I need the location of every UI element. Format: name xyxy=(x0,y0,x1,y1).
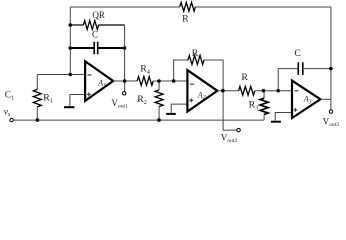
terminal Vout1 xyxy=(123,92,126,95)
wire left rail (top line down to A1 inverting input) xyxy=(69,7,71,75)
node A2 output xyxy=(221,89,225,93)
wire QR row left lead xyxy=(70,24,83,26)
wire A2 feedback branch (up and over) xyxy=(174,60,188,81)
wire A1 non-inverting input to ground xyxy=(70,95,85,107)
resistor R (between A2 and A3) xyxy=(239,86,255,95)
svg-text:C: C xyxy=(92,30,98,40)
node A1 output xyxy=(123,79,127,83)
wire A3 non-inverting input to ground xyxy=(275,113,292,121)
node R/R3 junction xyxy=(262,89,266,93)
svg-text:R: R xyxy=(182,14,189,25)
wire top feedback line (left segment, from left rail to resistor R) xyxy=(70,6,180,8)
capacitor C (A3) plates xyxy=(298,62,303,75)
terminal Vout3 xyxy=(329,110,332,113)
wire A1 output row xyxy=(113,80,137,82)
wire A2 non-inverting input to ground xyxy=(171,104,187,113)
resistor R3 (vertical) with leads xyxy=(263,91,265,98)
resistor R4 (between A1 and A2) xyxy=(137,77,153,86)
resistor R4 (A2 feedback) xyxy=(188,56,204,65)
wire A3 output to right rail xyxy=(320,98,331,100)
resistor R (top feedback) xyxy=(180,2,196,11)
node C right (A1) xyxy=(123,46,127,50)
node R1 bottom rail xyxy=(36,118,40,122)
minus sign A3 xyxy=(295,90,299,92)
wire top feedback line (right segment, R to right rail corner) xyxy=(195,6,331,8)
node R2 bottom rail xyxy=(157,118,161,122)
svg-text:R: R xyxy=(241,72,248,83)
minus sign A2 xyxy=(190,83,194,85)
op-amp A1 xyxy=(85,61,113,101)
node C right on rail (A3) xyxy=(329,67,333,71)
plus sign A2 xyxy=(189,98,193,102)
svg-text:QR: QR xyxy=(92,10,105,20)
terminal vs (input) xyxy=(10,118,13,121)
minus sign A1 xyxy=(88,74,92,76)
plus sign A1 xyxy=(87,93,91,97)
resistor R1 (vertical) with leads xyxy=(36,75,38,90)
wire bottom input rail xyxy=(13,119,264,121)
wire Vout2 drop (crosses bottom rail, no connection) xyxy=(223,91,237,130)
capacitor C (A1 integrator) left lead xyxy=(70,47,94,49)
plus sign A3 xyxy=(294,108,298,112)
terminal Vout2 xyxy=(237,128,240,131)
op-amp A2 xyxy=(187,70,217,111)
capacitor C (A3) right lead to output rail xyxy=(303,68,331,70)
ground (A3) xyxy=(271,121,281,123)
node C branch (A3) xyxy=(276,89,280,93)
wire R to A3 inverting input xyxy=(255,90,292,92)
ground (A1) xyxy=(64,106,74,108)
wire A1 inverting input row xyxy=(37,74,85,76)
wire C (A3) feedback branch up from inverting input xyxy=(278,69,298,91)
wire A2 feedback right side down to output xyxy=(204,60,223,91)
svg-text:C: C xyxy=(294,48,300,59)
wire stub to Vout3 terminal xyxy=(330,99,332,110)
capacitor C (A1) plates xyxy=(94,42,98,55)
resistor QR xyxy=(83,21,98,30)
wire right rail of A1 (QR corner down to Vout1 terminal) xyxy=(124,25,126,92)
wire R4 to A2 inverting input xyxy=(153,80,187,82)
node QR left xyxy=(69,23,73,27)
wire A2 output row xyxy=(217,90,238,92)
node A1 inverting input xyxy=(69,73,73,77)
node R4/R2 junction xyxy=(157,79,161,83)
node A2 feedback tap xyxy=(172,79,176,83)
op-amp A3 xyxy=(292,81,320,118)
wire QR row right lead to right rail xyxy=(99,24,125,26)
resistor R2 (vertical) with leads xyxy=(158,81,160,90)
capacitor C (A1) right lead xyxy=(98,47,125,49)
wire right rail (top line down to output row) xyxy=(330,7,332,99)
node C left (A1) xyxy=(69,46,73,50)
ground (A2) xyxy=(166,113,176,115)
